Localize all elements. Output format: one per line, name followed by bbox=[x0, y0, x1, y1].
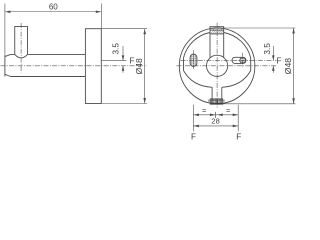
fixing extension line left bbox=[192, 105, 194, 132]
equal-spacing center tick bbox=[214, 112, 216, 118]
grub screw side nubs bbox=[209, 100, 224, 102]
svg-text:F: F bbox=[276, 57, 281, 66]
svg-text:3.5: 3.5 bbox=[263, 43, 272, 55]
mounting plate top arc, left segment bbox=[184, 33, 211, 58]
peg-to-bar intersection arc bbox=[15, 54, 28, 57]
svg-text:=: = bbox=[202, 108, 206, 115]
svg-text:Ø48: Ø48 bbox=[283, 58, 293, 74]
equal-spacing dimension line bbox=[193, 114, 238, 116]
dimension 3.5 (front view): upper arrow bbox=[272, 46, 274, 60]
svg-text:F: F bbox=[236, 132, 241, 141]
dimension 3.5 (side view): upper arrow bbox=[122, 46, 124, 60]
dimension 60: extension line left bbox=[4, 4, 6, 55]
wall flange (side view) bbox=[85, 29, 101, 104]
fixing extension line right bbox=[237, 105, 239, 132]
screw in right slot (hatched circle) bbox=[240, 57, 246, 63]
right slot vertical centerline bbox=[242, 53, 244, 68]
peg section line lower bbox=[210, 33, 224, 35]
mounting plate left flat bbox=[183, 58, 185, 71]
svg-text:3.5: 3.5 bbox=[112, 43, 121, 55]
mounting plate top arc, right segment bbox=[224, 33, 251, 58]
mounting plate bottom-left edge bbox=[184, 71, 213, 88]
svg-text:60: 60 bbox=[49, 2, 58, 11]
Ø48 dimension line (side view) bbox=[144, 29, 146, 104]
mounting plate right flat bbox=[250, 58, 252, 71]
Ø48 extension line bottom (front view) bbox=[223, 103, 296, 105]
svg-text:F: F bbox=[191, 132, 196, 141]
rosette circle Ø48 (front view) bbox=[179, 28, 255, 104]
Ø48 extension line top (side view) bbox=[101, 28, 147, 30]
peg section line upper bbox=[210, 29, 224, 31]
left slot vertical centerline bbox=[193, 50, 195, 70]
peg section hatching bbox=[210, 30, 223, 34]
dimension 28 line bbox=[193, 125, 238, 127]
dimension 60: dimension line bbox=[5, 11, 101, 13]
wire: vertical centerline of peg (dash-dot) bbox=[20, 23, 22, 73]
dimension 60: extension line right bbox=[100, 4, 102, 29]
mounting plate bottom-right edge bbox=[222, 71, 251, 88]
svg-text:=: = bbox=[226, 108, 230, 115]
Ø48 dimension line (front view) bbox=[293, 28, 295, 104]
right fixing slot (horizontal obround) bbox=[232, 57, 246, 63]
fixing axis extension line (side view) bbox=[102, 59, 127, 61]
dimension 60: left arrowhead bbox=[5, 10, 10, 13]
wire: horizontal centerline (dash-dot) bbox=[177, 65, 278, 67]
dimension 3.5 (side view): lower arrow bbox=[122, 66, 124, 73]
svg-text:28: 28 bbox=[211, 117, 219, 126]
left fixing slot (vertical obround, hatched) bbox=[190, 54, 197, 66]
Ø48 extension line top (front view) bbox=[224, 27, 296, 29]
dimension 60: right arrowhead bbox=[96, 10, 102, 13]
svg-text:Ø48: Ø48 bbox=[134, 58, 144, 74]
peg silhouette (front view) bbox=[210, 27, 224, 58]
bar (hook body, side view) with chamfered tip bbox=[5, 54, 86, 76]
wire: horizontal centerline of bar (dash-dot) bbox=[1, 65, 148, 67]
peg (vertical pin, side view) bbox=[15, 26, 28, 54]
grub screw channel walls bbox=[212, 87, 222, 99]
Ø48 extension line bottom (side view) bbox=[101, 103, 147, 105]
wire: vertical centerline (dash-dot) bbox=[216, 23, 218, 108]
wire: fixing axis line (dash-dot) bbox=[181, 59, 277, 61]
bar end circle (front view) bbox=[207, 55, 228, 76]
grub screw tip (hatched) bbox=[210, 99, 223, 104]
dimension 3.5 (front view): lower arrow bbox=[272, 66, 274, 73]
